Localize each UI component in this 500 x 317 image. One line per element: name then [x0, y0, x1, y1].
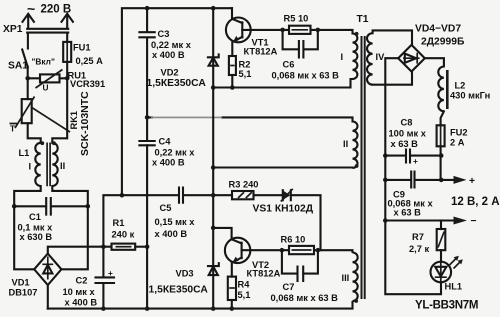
node top rail VD2 [211, 6, 216, 11]
wire minus row [385, 219, 454, 221]
wire left phase down to switch [27, 33, 29, 49]
core T1 [362, 36, 365, 299]
label FU1 0,25 A [73, 43, 103, 67]
label R1 240k [112, 218, 135, 240]
capacitor C1 [46, 198, 51, 215]
label VT1 [244, 38, 278, 57]
label FU2 2A [450, 128, 468, 148]
node C8 left [383, 153, 388, 158]
label VT2 [247, 260, 281, 279]
wire C1 left down to bridge [14, 206, 34, 269]
label ~220V [27, 1, 71, 17]
diode VD2 symbol [208, 54, 219, 65]
svg-text:R6 10: R6 10 [281, 235, 306, 245]
transistor VT1 [226, 8, 251, 56]
wire fuse to RU1 node [66, 62, 68, 78]
svg-text:I: I [29, 162, 32, 172]
capacitor C9 [411, 172, 414, 188]
node M R3 [211, 193, 216, 198]
svg-text:КТ812А: КТ812А [247, 269, 281, 279]
svg-text:х 630 В: х 630 В [20, 232, 53, 242]
wire L1 winding II to C1 right [52, 186, 88, 206]
svg-text:R2: R2 [239, 60, 251, 70]
svg-text:C2: C2 [76, 276, 88, 286]
svg-text:L2: L2 [455, 81, 466, 91]
svg-text:U: U [43, 83, 49, 93]
node left RU1 [25, 76, 30, 81]
wire A top rail riser [122, 8, 232, 195]
inductor L2 [438, 67, 447, 112]
label C2 value [63, 276, 98, 308]
node C2 rail [101, 306, 106, 311]
dinistor VS1 [281, 189, 293, 202]
wire VT1 base row [251, 30, 353, 34]
wire RU1 node down to thermistor [27, 78, 29, 99]
transformer T1 winding IV [367, 33, 373, 85]
wire winding IV bottom to bridge2 [373, 72, 412, 85]
svg-text:SCK-103NTC: SCK-103NTC [79, 91, 91, 156]
fuse FU2 [437, 125, 445, 146]
svg-text:0,22 мк х: 0,22 мк х [151, 40, 192, 50]
node winding III phase dot [354, 299, 358, 303]
svg-text:КТ812А: КТ812А [244, 47, 278, 57]
svg-text:I: I [341, 52, 344, 62]
svg-text:VD3: VD3 [176, 269, 194, 279]
resistor R7 [437, 229, 446, 250]
node C3 C4 junction [145, 115, 150, 120]
wire right phase down to fuse [66, 33, 68, 42]
svg-text:R5 10: R5 10 [284, 14, 309, 24]
wire C1 [14, 205, 88, 207]
wire B C5 row [122, 194, 232, 196]
label RU1 VCR391 [68, 71, 106, 90]
fuse FU1 [63, 42, 71, 62]
wire RU1 leads [28, 77, 67, 79]
node M rail [211, 306, 216, 311]
svg-text:C5: C5 [160, 203, 172, 213]
label VD3 [149, 269, 209, 296]
svg-text:R4: R4 [238, 280, 251, 290]
capacitor C3 [139, 32, 154, 37]
svg-text:"Вкл": "Вкл" [32, 57, 55, 67]
arrow minus output [454, 216, 477, 227]
capacitor C7 parallel [282, 250, 318, 281]
wire bridge plus output [48, 247, 112, 254]
inductor L1 winding II [52, 143, 57, 186]
wire C1 right down to bridge right corner [61, 206, 87, 269]
node L1 dot II [52, 141, 56, 145]
svg-text:0,1 мк х: 0,1 мк х [18, 223, 54, 233]
node plus R1 left [101, 244, 106, 249]
wire RU1 node down to L1 winding II [52, 78, 67, 143]
node M VT2 collector [211, 226, 216, 231]
capacitor C2 [96, 268, 115, 283]
resistor R6 [289, 246, 314, 254]
wire M bus [212, 8, 214, 308]
wire R2 bottom [231, 75, 233, 88]
node R5 right [316, 28, 321, 33]
node VD2 R2 junction [211, 85, 216, 90]
svg-text:VS1 КН102Д: VS1 КН102Д [253, 204, 314, 215]
svg-text:240 к: 240 к [112, 230, 135, 240]
wire winding IV top to bridge2 [373, 30, 412, 45]
svg-text:XP1: XP1 [3, 24, 23, 35]
svg-text:0,068 мк х 63 В: 0,068 мк х 63 В [271, 293, 339, 303]
node top rail C3 [145, 6, 150, 11]
svg-text:х 63 В: х 63 В [394, 208, 422, 218]
transformer T1 winding II [353, 122, 358, 169]
svg-text:YL-BB3N7M: YL-BB3N7M [415, 300, 478, 312]
bridge VD1 [34, 254, 61, 285]
connector XP1 plug bars [27, 29, 68, 33]
wire FU2 to C8 node [440, 146, 442, 180]
svg-text:R7: R7 [412, 232, 424, 242]
svg-text:10 мк х: 10 мк х [63, 287, 96, 297]
svg-text:R3 240: R3 240 [229, 180, 259, 190]
label VD1 DB107 [9, 278, 38, 298]
capacitor C8 [406, 150, 418, 167]
wire C4 bus lower [146, 145, 148, 308]
transformer T1 winding I [353, 34, 358, 79]
varistor RU1 [36, 70, 63, 93]
label C6 value [272, 60, 340, 81]
node R1 right [145, 244, 150, 249]
wire C9 plus row [385, 179, 454, 181]
svg-text:VCR391: VCR391 [70, 79, 105, 89]
LED HL1 [431, 256, 463, 283]
svg-text:II: II [60, 161, 65, 171]
node wireA bottom [120, 193, 125, 198]
transformer T1 winding III [353, 253, 358, 309]
capacitor C6 parallel [283, 30, 318, 58]
svg-text:12 В, 2 А: 12 В, 2 А [451, 196, 500, 208]
svg-text:FU1: FU1 [73, 43, 91, 53]
svg-text:2Д2999Б: 2Д2999Б [421, 37, 465, 48]
label C3 value [151, 29, 192, 60]
wire C8 row [385, 155, 441, 157]
svg-text:IV: IV [376, 52, 386, 62]
wire bridge minus down to rail [47, 285, 49, 309]
node C1 right [86, 204, 91, 209]
label C9 value [388, 190, 434, 218]
label C1 value [18, 212, 54, 242]
wire VT2 base row [251, 250, 353, 252]
svg-text:х 400 В: х 400 В [152, 50, 185, 60]
resistor R5 [289, 26, 311, 34]
resistor R2 [229, 56, 236, 75]
wire R3 to VS1 [254, 194, 283, 196]
svg-text:5,1: 5,1 [239, 69, 252, 79]
transistor VT2 [213, 228, 251, 277]
node C8 right [439, 153, 444, 158]
capacitor C5 [179, 188, 183, 203]
wire thermistor to L1 winding I [28, 123, 41, 143]
svg-text:HL1: HL1 [445, 282, 463, 292]
svg-text:FU2: FU2 [450, 128, 468, 138]
svg-text:−: − [471, 216, 477, 227]
wire emitter junction row [213, 79, 352, 88]
node C1 left [12, 204, 17, 209]
rail bottom [48, 308, 353, 310]
svg-text:х 400 В: х 400 В [152, 158, 185, 168]
inductor L1 winding I [35, 143, 40, 186]
svg-text:1,5КЕ350СА: 1,5КЕ350СА [147, 78, 207, 89]
svg-text:5,1: 5,1 [238, 290, 251, 300]
label C4 value [152, 137, 195, 168]
wire R4 bottom [231, 300, 233, 309]
wire R7 to LED [440, 250, 442, 262]
node L1 dot I [40, 141, 44, 145]
svg-text:2,7 к: 2,7 к [409, 244, 430, 254]
wire corner bus to R1 [103, 195, 122, 247]
svg-text:T: T [10, 124, 15, 134]
svg-text:R1: R1 [113, 218, 125, 228]
connector XP1 arrows [23, 14, 73, 29]
svg-text:C7: C7 [283, 282, 295, 292]
node C9 right [439, 178, 444, 183]
svg-text:х 400 В: х 400 В [65, 298, 98, 308]
label C5 value [155, 203, 196, 239]
svg-text:х 400 В: х 400 В [155, 229, 188, 239]
svg-text:C1: C1 [29, 212, 41, 222]
svg-text:DB107: DB107 [9, 288, 38, 298]
svg-text:SA1: SA1 [8, 61, 28, 72]
node right RU1 [65, 76, 70, 81]
node C4 rail [145, 306, 150, 311]
pointer line to RK1 label [31, 107, 70, 132]
svg-text:+: + [469, 176, 475, 187]
node R6 left [280, 248, 285, 253]
svg-text:+: + [413, 156, 418, 166]
svg-text:VD4−VD7: VD4−VD7 [415, 24, 461, 35]
bridge VD4-VD7 [398, 45, 425, 72]
arrow plus output [454, 176, 476, 187]
wire bridge2 left corner to minus bus [385, 58, 441, 294]
capacitor C4 [139, 141, 154, 145]
svg-text:VD1: VD1 [12, 278, 30, 288]
svg-text:C8: C8 [401, 118, 413, 128]
svg-text:0,15 мк х: 0,15 мк х [155, 217, 196, 227]
svg-text:х 63 В: х 63 В [391, 139, 419, 149]
diode VD3 symbol [208, 263, 219, 275]
wire L1 winding I to C1 left [14, 186, 41, 206]
node winding I phase dot [355, 32, 359, 36]
wire winding II bottom [213, 166, 352, 168]
wire L2 to FU2 [441, 111, 444, 125]
node minus left [383, 218, 388, 223]
svg-text:III: III [342, 273, 350, 283]
wire C2 branch [102, 247, 104, 309]
switch SA1 blade [22, 50, 28, 68]
node C9 left [383, 178, 388, 183]
label VD2 [147, 68, 207, 90]
node R4 rail [230, 306, 235, 311]
svg-text:T1: T1 [357, 14, 369, 25]
svg-text:1,5КЕ350СА: 1,5КЕ350СА [149, 285, 209, 296]
svg-text:RK1: RK1 [69, 111, 79, 130]
wire R7 riser [440, 221, 442, 230]
svg-text:0,068 мк х 63 В: 0,068 мк х 63 В [272, 71, 340, 81]
node winding II phase dot [355, 164, 359, 168]
resistor R1 [112, 244, 136, 250]
svg-text:0,25 А: 0,25 А [76, 56, 104, 66]
thermistor RK1 [10, 97, 35, 134]
label R4 [238, 280, 251, 301]
svg-text:C3: C3 [158, 29, 170, 39]
svg-text:100 мк х: 100 мк х [389, 129, 427, 139]
svg-text:C4: C4 [159, 137, 172, 147]
svg-text:VD2: VD2 [161, 68, 179, 78]
svg-text:II: II [343, 139, 348, 149]
wire R1 right [135, 246, 147, 248]
svg-text:0,22 мк х: 0,22 мк х [155, 148, 196, 158]
wire C3 bus upper [146, 8, 148, 141]
svg-text:430 мкГн: 430 мкГн [450, 91, 490, 101]
svg-text:+: + [108, 268, 113, 278]
node R5 left [280, 28, 285, 33]
node M winding II [211, 165, 216, 170]
label R2 [239, 60, 252, 80]
wire bridge2 right corner to L2 [425, 58, 444, 66]
resistor R3 [232, 191, 254, 199]
label VD4-VD7 [415, 24, 465, 48]
core L1 [47, 143, 50, 187]
resistor R4 [228, 277, 236, 300]
label R7 value [409, 232, 430, 254]
label C7 value [271, 282, 339, 303]
svg-text:C6: C6 [283, 60, 295, 70]
node R6 right [316, 248, 321, 253]
label L2 value [450, 81, 490, 101]
wire VS1 to VT2 base node [291, 195, 321, 250]
label C8 value [389, 118, 427, 150]
wire switch to RU1 node [27, 67, 29, 79]
wire mid node to winding II top [147, 117, 352, 121]
svg-text:2 А: 2 А [450, 138, 465, 148]
svg-text:L1: L1 [19, 148, 30, 158]
